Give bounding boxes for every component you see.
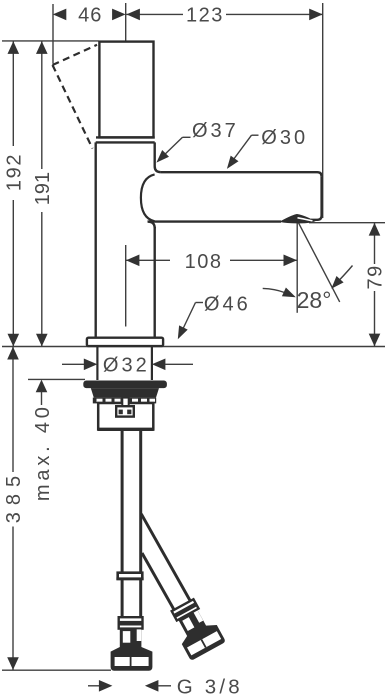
dimension 385 bottom arrow — [7, 657, 19, 670]
stabilizer plate — [91, 388, 159, 398]
extension line aerator vertical x=297.2 — [296, 220, 298, 312]
extension line nut top y=379.4 — [28, 378, 85, 380]
mounting nut bottom edge — [98, 428, 154, 431]
extension line top-left horizontal y=40.9 — [2, 40, 99, 42]
dimension 123 line — [126, 13, 183, 15]
dimension 385 top arrow — [7, 347, 19, 360]
body lower fillet — [148, 222, 155, 229]
diagonal hose upper edge — [141, 514, 190, 601]
spout top edge — [161, 172, 322, 176]
straight hose left edge — [121, 431, 124, 618]
handle bottom line — [96, 136, 155, 138]
svg-text:192: 192 — [3, 153, 25, 191]
extension line spout end x=322.7 — [322, 3, 324, 218]
clip tab — [122, 398, 128, 407]
svg-text:max. 40: max. 40 — [32, 403, 54, 501]
label Ø37 leader — [183, 136, 191, 138]
hose end nut G3/8 — [111, 647, 153, 671]
washer bar — [83, 381, 167, 389]
dimension 191 bottom arrow — [36, 334, 48, 347]
dimension 385 line — [12, 347, 14, 472]
dimension Ø32 line — [62, 363, 84, 365]
spout bottom edge — [148, 220, 282, 222]
dimension 108 right arrow — [284, 255, 298, 267]
dashed tilted handle left edge — [53, 65, 93, 149]
dimension 192 line — [12, 41, 14, 146]
clip box — [116, 406, 134, 416]
angle 28 right leader arrow — [340, 266, 353, 280]
shaft Ø32 right edge — [151, 347, 153, 380]
dimension 79 bottom arrow — [369, 334, 381, 347]
angle 28 left leader arrow — [263, 288, 285, 292]
angle 28 slant line — [297, 220, 340, 302]
spout right end — [311, 177, 322, 220]
svg-text:Ø30: Ø30 — [261, 127, 308, 149]
hose union — [118, 573, 143, 579]
dimension 108 line — [126, 259, 170, 261]
dimension 79 line — [374, 223, 376, 264]
body top line — [96, 141, 155, 143]
extension line tilted-handle corner x=53 — [52, 4, 54, 64]
diagonal hose lower edge — [142, 553, 174, 610]
dimension 123 right arrow — [309, 9, 323, 21]
body right edge lower — [153, 227, 155, 338]
dimension 46 right arrow — [112, 9, 126, 21]
svg-text:Ø46: Ø46 — [204, 294, 251, 316]
dimension 192 top arrow — [8, 41, 20, 54]
dimension 191 line — [41, 41, 43, 169]
shaft Ø32 left edge — [96, 347, 98, 380]
aerator beak — [281, 215, 316, 223]
extension line aerator y=222.7 — [309, 222, 385, 224]
mounting nut box — [98, 403, 153, 430]
svg-text:Ø37: Ø37 — [192, 120, 239, 142]
body left edge — [94, 142, 96, 337]
spout left cap arc — [141, 174, 155, 221]
dimension 108 left arrow — [126, 255, 139, 267]
svg-text:46: 46 — [78, 4, 102, 26]
dashed tilted handle top edge — [53, 45, 98, 65]
label Ø30 leader — [252, 134, 259, 136]
extension line faucet centerline top x=125.7 — [125, 3, 127, 62]
body right edge upper + spout top fillet — [155, 142, 161, 172]
dimension 46 left arrow — [53, 9, 67, 21]
svg-text:G 3/8: G 3/8 — [177, 676, 243, 699]
extension line faucet centerline x=125.7 — [125, 245, 127, 327]
hose collar — [119, 617, 143, 628]
dimension 79 top arrow — [369, 223, 381, 236]
knurl band — [93, 398, 156, 404]
label Ø46 leader — [196, 302, 204, 304]
svg-text:385: 385 — [3, 469, 25, 523]
extension line mounting surface y=346.5 — [2, 346, 385, 348]
dimension 191 top arrow — [36, 41, 48, 54]
hose knurl section — [120, 628, 142, 647]
extension line hose end y=670.2 — [2, 669, 111, 671]
svg-text:Ø32: Ø32 — [103, 354, 150, 376]
svg-text:28°: 28° — [297, 287, 332, 313]
dimension max40 tail — [41, 392, 43, 405]
svg-text:123: 123 — [186, 4, 224, 26]
straight hose right edge — [139, 431, 142, 618]
svg-text:108: 108 — [185, 251, 223, 273]
handle — [99, 42, 153, 138]
dimension 123 left arrow — [126, 9, 139, 21]
svg-text:191: 191 — [32, 172, 54, 205]
dimension max40 arrow — [36, 380, 48, 393]
dimension G3/8 line — [88, 685, 99, 687]
dimension 192 bottom arrow — [8, 334, 20, 347]
svg-text:79: 79 — [365, 264, 387, 289]
diagonal fitting — [166, 595, 226, 661]
base flange — [87, 338, 163, 346]
